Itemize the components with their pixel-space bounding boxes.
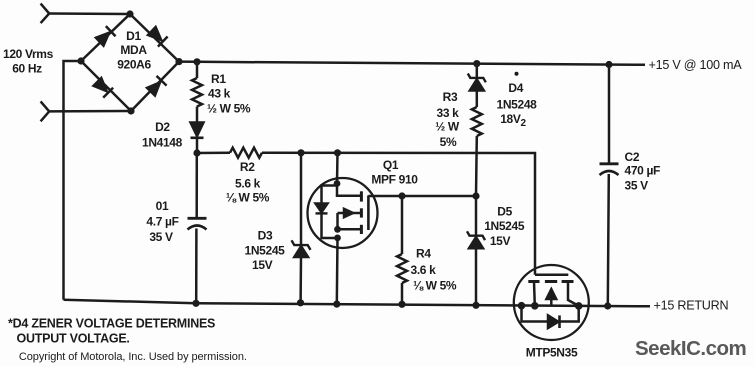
- svg-text:D4: D4: [508, 81, 523, 95]
- MTP5N35 source stub: [568, 282, 579, 306]
- Q1 source stub: [338, 228, 361, 231]
- svg-text:R1: R1: [211, 72, 226, 86]
- label: D5 1N5245 15V: [484, 204, 525, 248]
- svg-text:MPF 910: MPF 910: [371, 173, 418, 187]
- Q1 gate bar: [367, 196, 370, 231]
- svg-text:C2: C2: [625, 150, 640, 164]
- zener diode D4: [468, 64, 486, 107]
- node: D3 bottom junction on return rail: [297, 299, 304, 306]
- capacitor C1 (01, 4.7 uF): [188, 153, 207, 303]
- svg-text:3.6 k: 3.6 k: [411, 263, 437, 277]
- AC input terminal top (arrowhead): [41, 4, 50, 24]
- node: C2 bottom junction on return rail: [604, 302, 611, 309]
- wire: return rail (bottom): [64, 300, 651, 307]
- label: 01 4.7 uF 35 V: [146, 199, 178, 244]
- svg-text:D5: D5: [497, 204, 512, 218]
- svg-text:Copyright of Motorola, Inc. Us: Copyright of Motorola, Inc. Used by perm…: [19, 351, 247, 363]
- resistor R1: [192, 62, 202, 122]
- label: Q1 MPF 910: [371, 158, 418, 187]
- bridge diode bottom-left (in D1): [92, 77, 113, 98]
- svg-text:920A6: 920A6: [117, 58, 151, 72]
- transistor MTP5N35 (circle): [514, 265, 589, 340]
- wire: bridge left node stub and left vertical down to return rail: [64, 61, 82, 300]
- svg-text:⅛ W 5%: ⅛ W 5%: [413, 279, 457, 293]
- node: R3/D5 junction: [472, 192, 479, 199]
- svg-text:1N4148: 1N4148: [142, 135, 183, 149]
- svg-text:18V2: 18V2: [500, 112, 526, 129]
- AC input terminal bottom (arrowhead): [41, 101, 50, 121]
- node: D4 branch junction on +15 rail: [473, 60, 480, 67]
- node: bridge top junction: [126, 10, 133, 17]
- Q1 internal protection diode branch: [316, 186, 338, 239]
- node: D5 bottom junction on return rail: [472, 302, 479, 309]
- svg-text:01: 01: [156, 199, 169, 213]
- label: +15 V @ 100 mA output: [649, 58, 743, 72]
- label: R1 43 k 1/2 W 5%: [207, 72, 251, 116]
- svg-text:MTP5N35: MTP5N35: [526, 346, 578, 360]
- label: 120 Vrms 60 Hz input: [3, 47, 54, 76]
- label: D4 1N5248 18V2 with asterisk: [497, 72, 538, 129]
- node: R1 top junction on +15 rail: [193, 58, 200, 65]
- node: D3 branch junction on gate bus: [297, 149, 304, 156]
- wire: top AC input to bridge top node: [49, 12, 130, 15]
- label: MTP5N35: [526, 346, 578, 360]
- svg-text:Q1: Q1: [383, 158, 399, 172]
- node: bridge left junction: [77, 57, 84, 64]
- note: copyright Motorola: [19, 351, 247, 363]
- MTP5N35 channel bars: [528, 280, 573, 283]
- node: R4 bottom junction on return rail: [398, 301, 405, 308]
- svg-text:MDA: MDA: [120, 43, 147, 57]
- bridge diode top-right (in D1): [147, 26, 168, 47]
- svg-text:120 Vrms: 120 Vrms: [3, 47, 54, 61]
- svg-text:4.7 µF: 4.7 µF: [146, 215, 178, 229]
- svg-text:43 k: 43 k: [208, 87, 231, 101]
- node: C2 top junction on +15 rail: [605, 61, 612, 68]
- MTP5N35 body diode loop: [522, 306, 579, 328]
- svg-text:⅛ W 5%: ⅛ W 5%: [226, 191, 270, 205]
- svg-text:D2: D2: [155, 120, 170, 134]
- MTP5N35 drain stub: [533, 282, 536, 306]
- resistor R4: [397, 196, 407, 304]
- node: bridge bottom junction: [127, 107, 134, 114]
- bridge diode top-left (in D1): [95, 26, 116, 47]
- svg-text:R4: R4: [416, 246, 431, 260]
- MTP5N35 gate lead and gate bar: [535, 273, 568, 276]
- diode D2: [191, 123, 204, 154]
- node: D2 / R2 / C1 junction: [193, 149, 200, 156]
- Q1 channel bars: [360, 191, 363, 234]
- node: MTP5N35 source junction: [575, 302, 583, 310]
- node: Q1 internal top junction: [334, 180, 341, 187]
- wire: Q1 gate lead to divider node: [368, 195, 476, 198]
- watermark: SeekIC.com: [635, 337, 746, 360]
- svg-text:5%: 5%: [440, 135, 457, 149]
- svg-text:D3: D3: [258, 228, 273, 242]
- MTP5N35 body stub with arrow: [546, 289, 556, 306]
- wire: gate bus from D2 node to R2: [197, 151, 230, 154]
- svg-text:35 V: 35 V: [625, 179, 649, 193]
- svg-text:1N5245: 1N5245: [484, 219, 525, 233]
- wire: bottom AC input to bridge bottom node: [49, 110, 131, 113]
- svg-text:1N5248: 1N5248: [497, 97, 538, 111]
- svg-text:5.6 k: 5.6 k: [235, 176, 261, 190]
- label: +15 RETURN output: [654, 299, 729, 313]
- resistor R3: [472, 107, 482, 196]
- node: Q1 source junction on return rail: [333, 301, 340, 308]
- node: Q1 drain branch junction on gate bus: [334, 149, 341, 156]
- svg-text:OUTPUT VOLTAGE.: OUTPUT VOLTAGE.: [17, 332, 130, 346]
- svg-text:1N5245: 1N5245: [245, 244, 286, 258]
- node: Q1 source/body junction: [334, 226, 341, 233]
- label: R4 3.6 k 1/8 W 5%: [411, 246, 457, 292]
- resistor R2: [230, 148, 262, 158]
- zener diode D3 branch: [292, 153, 311, 303]
- node: MTP5N35 body-diode left junction: [518, 302, 526, 310]
- wire: gate bus from R2 to MTP5N35 gate corner: [262, 153, 535, 275]
- node: R4 top junction: [398, 192, 405, 199]
- svg-text:*D4 ZENER VOLTAGE DETERMINES: *D4 ZENER VOLTAGE DETERMINES: [8, 317, 215, 331]
- label: R2 5.6 k 1/8 W 5%: [226, 160, 270, 205]
- svg-text:+15 V @ 100 mA: +15 V @ 100 mA: [649, 58, 743, 72]
- node: C1 bottom junction on return rail: [192, 300, 199, 307]
- svg-text:R3: R3: [443, 90, 458, 104]
- svg-text:½ W: ½ W: [435, 120, 460, 134]
- svg-text:470 µF: 470 µF: [625, 164, 661, 178]
- node: MTP5N35 drain junction: [531, 302, 539, 310]
- node: Q1 source/diode junction: [334, 235, 341, 242]
- svg-text:D1: D1: [126, 29, 141, 43]
- bridge diode bottom-right (in D1): [146, 76, 167, 97]
- Q1 body stub with arrow: [338, 209, 361, 230]
- zener diode D5: [467, 196, 485, 305]
- svg-text:+15 RETURN: +15 RETURN: [654, 299, 729, 313]
- note: D4 zener voltage determines output voltage: [8, 317, 215, 346]
- svg-text:R2: R2: [240, 160, 255, 174]
- transistor Q1 MPF 910 (circle): [308, 178, 378, 248]
- svg-text:15V: 15V: [490, 234, 511, 248]
- Q1 drain lead from gate bus into circle: [336, 153, 339, 184]
- svg-text:60 Hz: 60 Hz: [12, 62, 42, 76]
- svg-text:SeekIC.com: SeekIC.com: [635, 337, 746, 360]
- wire: +15 V top rail: [179, 62, 645, 65]
- Q1 drain stub: [337, 185, 360, 196]
- svg-text:33 k: 33 k: [437, 106, 460, 120]
- label: R3 33 k 1/2 W 5%: [435, 90, 460, 149]
- Q1 source lead to return rail: [336, 238, 339, 304]
- bridge rectifier D1 diamond wires: [81, 14, 179, 111]
- label: D2 1N4148: [142, 120, 183, 149]
- svg-text:35 V: 35 V: [149, 230, 173, 244]
- svg-text:½ W 5%: ½ W 5%: [207, 102, 251, 116]
- label: D3 1N5245 15V: [245, 228, 286, 272]
- capacitor C2: [600, 65, 619, 307]
- label: D1 MDA 920A6: [117, 29, 151, 72]
- label: C2 470 uF 35 V: [625, 150, 661, 193]
- node: bridge right junction: [175, 58, 182, 65]
- svg-text:15V: 15V: [252, 258, 273, 272]
